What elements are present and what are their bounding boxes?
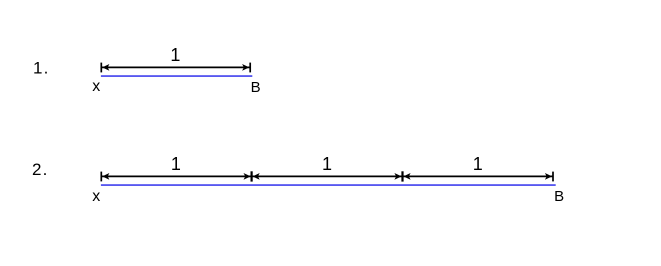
figure 2 segment 3 right arrowhead — [545, 173, 552, 180]
figure 2 segment 3 left arrowhead — [403, 173, 410, 180]
svg-text:1: 1 — [171, 154, 181, 174]
svg-text:1: 1 — [322, 154, 332, 174]
svg-text:1.: 1. — [33, 59, 48, 78]
figure 1 right arrowhead — [242, 64, 249, 71]
svg-text:B: B — [251, 79, 261, 96]
figure 1 blue segment — [101, 75, 252, 77]
figure 1 dimension line — [101, 66, 250, 68]
figure 1 left tick — [100, 63, 102, 73]
figure 2 segment 2 right arrowhead — [394, 173, 401, 180]
svg-text:2.: 2. — [32, 160, 47, 179]
figure 2 segment 2 left arrowhead — [253, 173, 260, 180]
figure 2 blue segment — [101, 184, 556, 186]
svg-text:x: x — [92, 78, 100, 95]
figure 2 tick at B — [552, 172, 554, 182]
figure 2 tick at x — [100, 172, 102, 182]
svg-text:1: 1 — [170, 45, 180, 65]
svg-text:B: B — [554, 188, 564, 205]
figure 1 left arrowhead — [102, 64, 109, 71]
figure 2 tick at first third — [251, 171, 253, 181]
svg-text:x: x — [92, 188, 100, 205]
figure 2 segment 1 right arrowhead — [244, 173, 251, 180]
figure 1 right tick — [249, 63, 251, 73]
figure 2 segment 1 left arrowhead — [102, 173, 109, 180]
svg-text:1: 1 — [473, 154, 483, 174]
figure 2 tick at second third — [401, 171, 403, 181]
figure 2 dimension line — [101, 175, 553, 177]
